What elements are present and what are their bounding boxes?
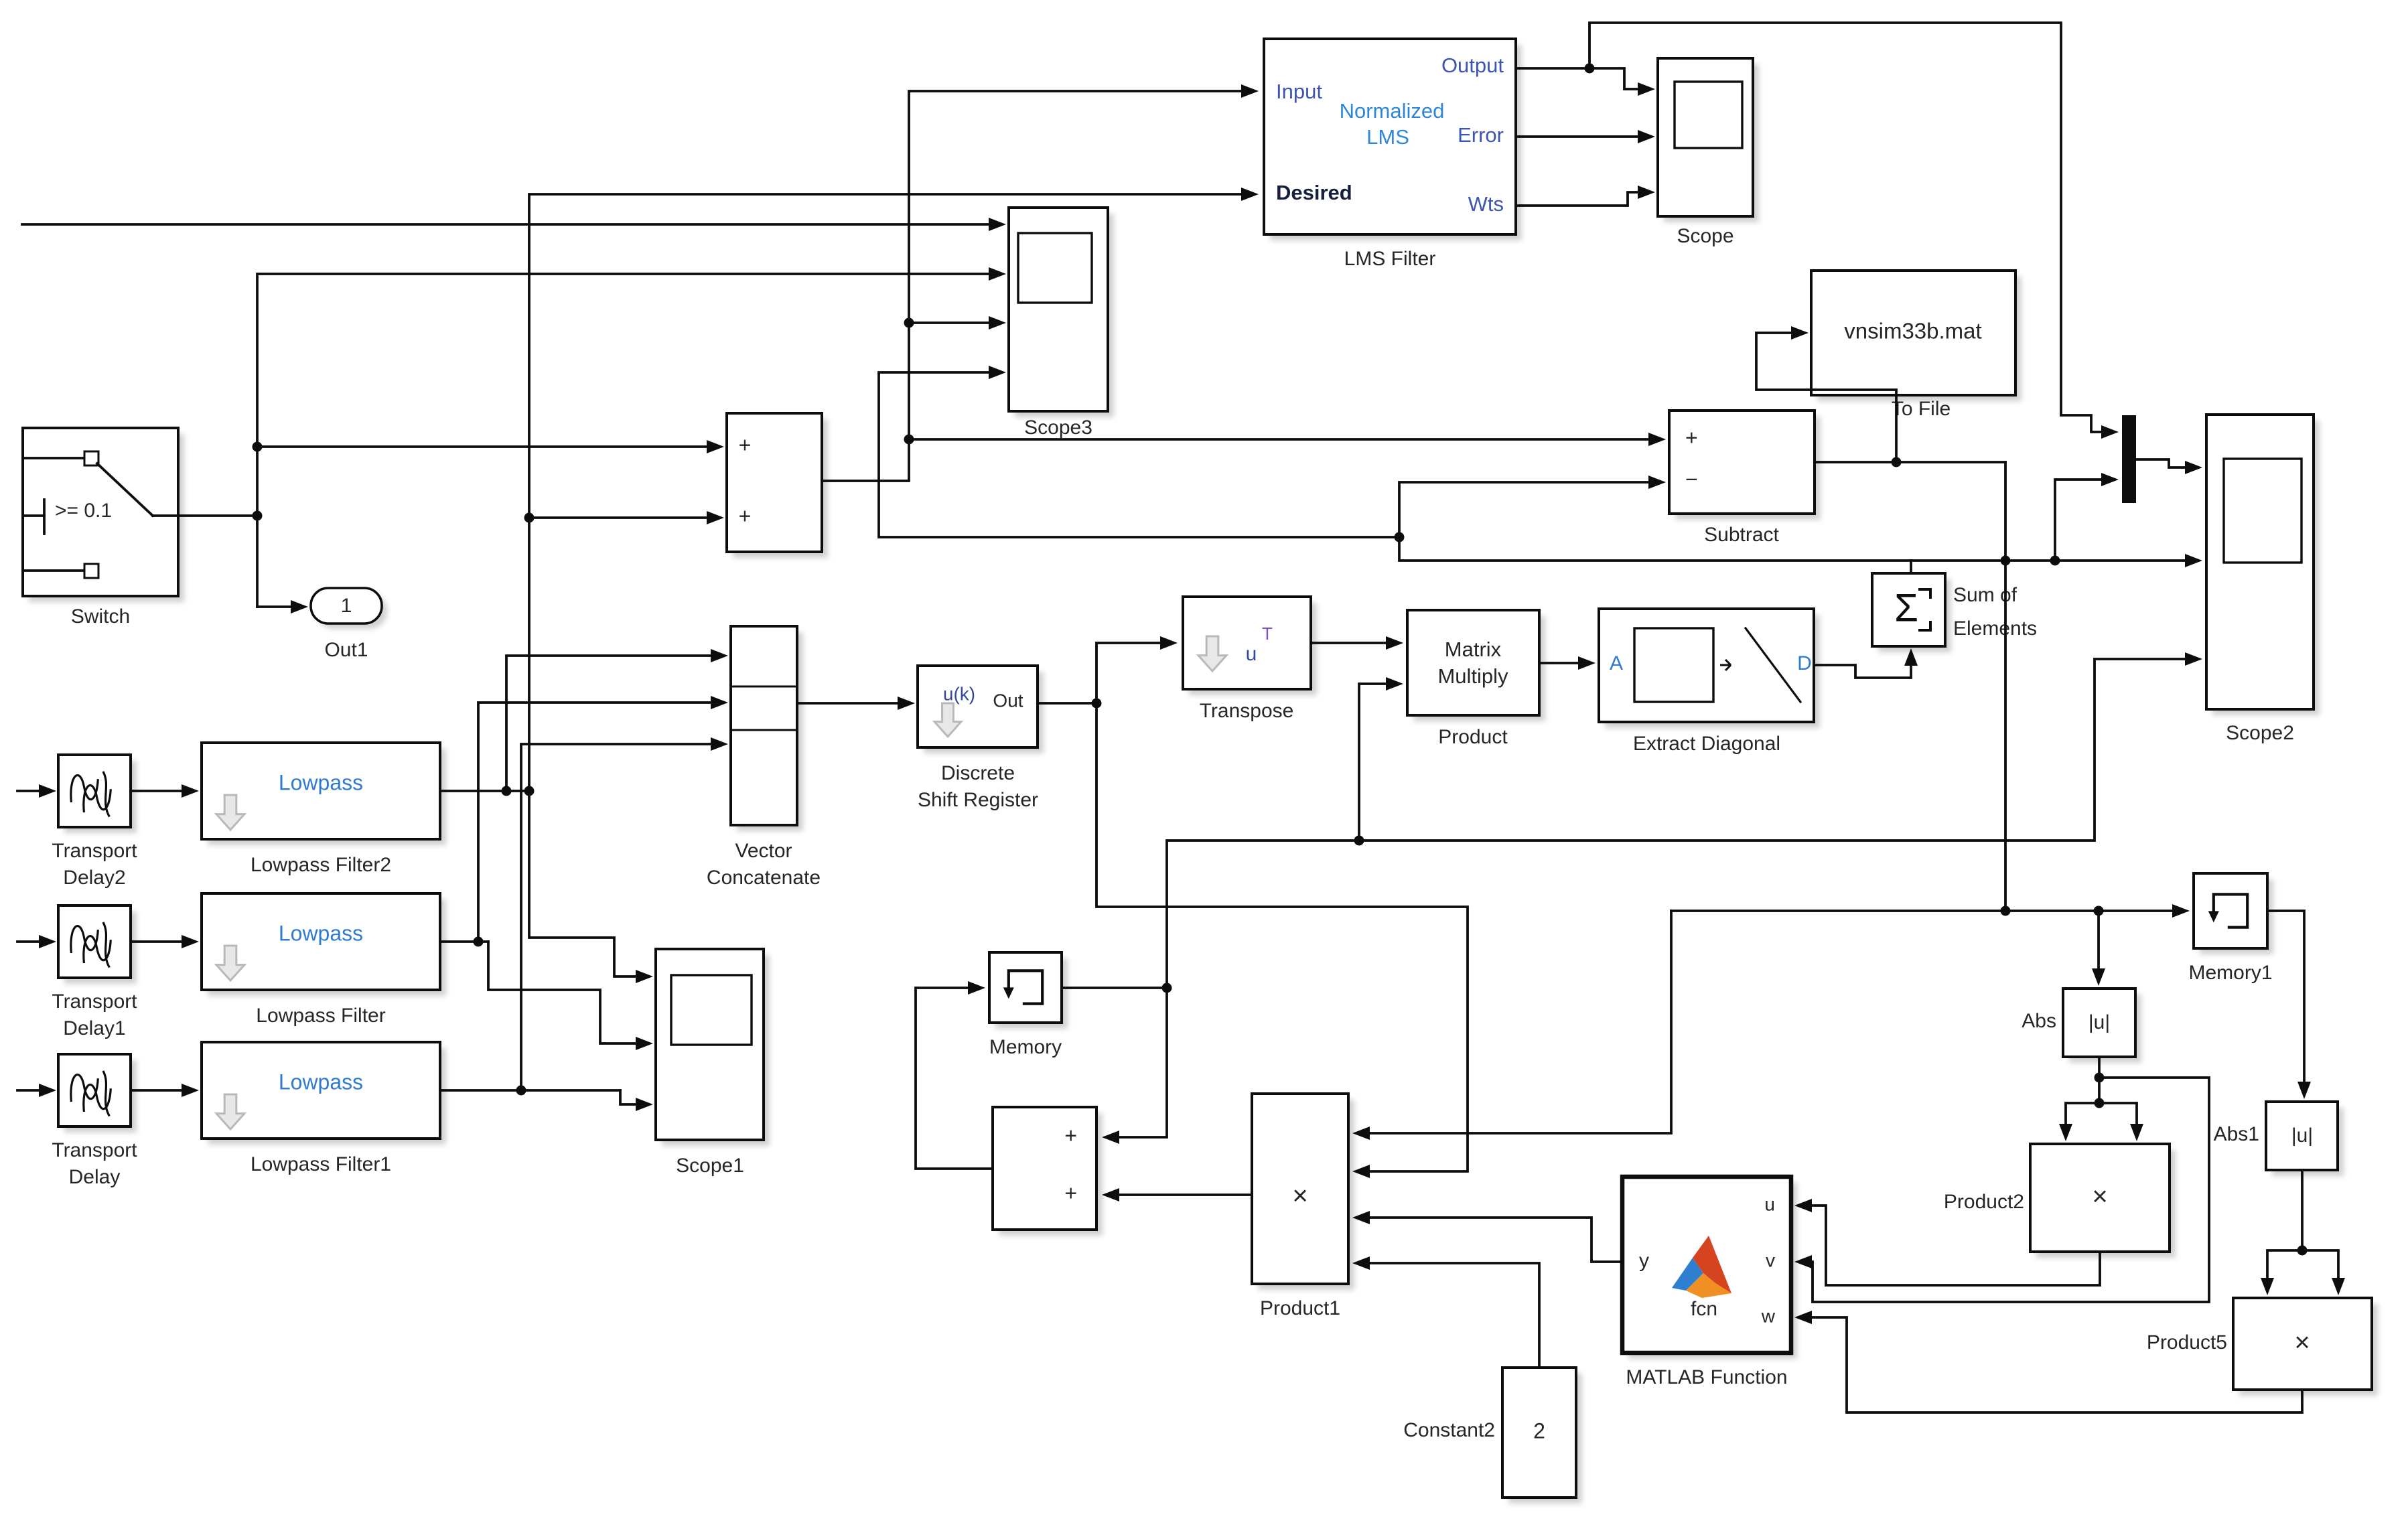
label Product1 [1260, 1297, 1340, 1319]
label Abs1 [2214, 1123, 2259, 1145]
block Discrete Shift Register [918, 666, 1044, 753]
svg-text:D: D [1797, 652, 1812, 674]
wire LMS Wts to Scope in3 [1516, 186, 1655, 206]
wire Abs to MATLAB v [1794, 1078, 2209, 1302]
label Out1 [324, 639, 368, 661]
wire u(k) to Transpose [1096, 636, 1178, 703]
svg-text:Normalized: Normalized [1340, 99, 1445, 123]
junction Abs1 out [2297, 1246, 2308, 1256]
svg-text:u: u [1764, 1193, 1775, 1214]
wire input stub [17, 935, 56, 948]
svg-text:Concatenate: Concatenate [707, 867, 821, 889]
wire Abs1 output [2301, 1170, 2304, 1250]
wire Lowpass output [440, 940, 488, 943]
junction Lowpass2 riser [524, 513, 535, 523]
svg-text:LMS: LMS [1366, 125, 1409, 149]
svg-text:Transpose: Transpose [1200, 700, 1294, 722]
block Scope [1658, 58, 1759, 222]
svg-text:Abs1: Abs1 [2214, 1123, 2259, 1145]
wire branch to Mux in2 [2055, 473, 2119, 561]
wire Lowpass2 riser to Desired [529, 188, 1259, 791]
wire Add to Subtract plus [909, 433, 1666, 446]
svg-text:Scope1: Scope1 [676, 1155, 744, 1177]
block LMS Filter [1264, 39, 1522, 240]
svg-text:Extract Diagonal: Extract Diagonal [1633, 733, 1780, 755]
label Subtract [1704, 524, 1779, 546]
label To File [1892, 398, 1951, 420]
svg-text:Output: Output [1441, 54, 1504, 77]
label Switch [71, 605, 130, 628]
wire Memory to Matrix Multiply in2 [1359, 677, 1403, 841]
svg-text:−: − [1685, 467, 1698, 491]
svg-text:y: y [1639, 1250, 1649, 1272]
block Scope2 [2206, 415, 2320, 715]
wire branch to Scope2 in2 [1911, 554, 2202, 567]
svg-text:×: × [2092, 1182, 2107, 1212]
svg-text:Lowpass: Lowpass [279, 921, 363, 945]
wire Subtract down [2004, 462, 2007, 911]
wire trunk to Abs [2092, 911, 2105, 986]
svg-text:v: v [1766, 1250, 1775, 1270]
label Memory [989, 1036, 1062, 1058]
junction Subtract out [1892, 457, 1902, 467]
label Lowpass Filter2 [251, 854, 391, 876]
svg-text:Scope3: Scope3 [1024, 417, 1092, 439]
wire Memory to Add2 in1 [1102, 988, 1167, 1144]
block Abs [2063, 989, 2141, 1063]
svg-text:Discrete: Discrete [941, 762, 1015, 784]
svg-text:+: + [1685, 425, 1698, 449]
wire Switch to Add in1 [257, 440, 724, 453]
wire Switch output trunk [178, 267, 1006, 607]
junction u(k) [1092, 699, 1102, 709]
mux Mux [2122, 415, 2136, 503]
label Extract Diagonal [1633, 733, 1780, 755]
svg-text:Lowpass Filter: Lowpass Filter [256, 1005, 385, 1027]
label Transpose [1200, 700, 1294, 722]
outport Out1 [311, 588, 387, 629]
wire LMS Output feedback [1589, 23, 2119, 439]
svg-text:Memory1: Memory1 [2188, 962, 2272, 984]
svg-text:2: 2 [1533, 1419, 1545, 1443]
block Subtract [1669, 411, 1821, 520]
block Memory [989, 952, 1068, 1029]
svg-text:Out: Out [993, 690, 1023, 711]
junction Lowpass2 out [502, 786, 535, 796]
wire Subtract output [1815, 461, 2005, 463]
wire Abs to Product2 inputs [2059, 1103, 2143, 1141]
svg-text:Delay: Delay [69, 1166, 121, 1188]
wire Transpose to Matrix Multiply in1 [1311, 636, 1403, 650]
svg-text:Delay1: Delay1 [63, 1017, 125, 1039]
svg-text:+: + [1064, 1181, 1077, 1205]
label Transport Delay1 [52, 991, 137, 1039]
wire Product5 to MATLAB w [1794, 1311, 2302, 1412]
svg-text:Subtract: Subtract [1704, 524, 1779, 546]
svg-text:|u|: |u| [2291, 1124, 2313, 1147]
svg-text:Scope2: Scope2 [2226, 722, 2294, 744]
svg-text:Product: Product [1438, 726, 1508, 748]
wire Memory1 to Abs1 [2267, 911, 2311, 1099]
svg-text:vnsim33b.mat: vnsim33b.mat [1844, 319, 1981, 344]
svg-text:Scope: Scope [1677, 225, 1733, 247]
wire Lowpass to Concatenate in2 [478, 696, 728, 942]
label LMS Filter [1344, 248, 1436, 270]
block Matrix Multiply [1407, 610, 1545, 721]
wire Extract Diagonal to Sum of Elements [1814, 648, 1918, 678]
svg-text:×: × [2294, 1328, 2310, 1358]
svg-text:Shift Register: Shift Register [918, 789, 1038, 811]
wire Abs1 to Product5 inputs [2261, 1250, 2345, 1295]
svg-text:Abs: Abs [2022, 1010, 2056, 1032]
wire Add to Scope3 in3 [909, 316, 1006, 330]
junction Lowpass1 out [516, 1086, 526, 1096]
wire Lowpass to Scope1 in2 [488, 942, 653, 1050]
wire input stub [17, 784, 56, 798]
block Product2 [2030, 1144, 2176, 1258]
junction Lowpass out [474, 937, 484, 947]
svg-text:+: + [1064, 1123, 1077, 1147]
svg-text:To File: To File [1892, 398, 1951, 420]
block To File [1811, 271, 2022, 401]
label Lowpass Filter [256, 1005, 385, 1027]
svg-text:fcn: fcn [1691, 1298, 1717, 1320]
block Product5 [2233, 1298, 2378, 1396]
wire u(k) to Product1 in2 [1096, 703, 1468, 1178]
svg-text:Error: Error [1458, 123, 1504, 147]
block Lowpass Filter2 [202, 743, 446, 845]
junction Memory1 trunk [2001, 906, 2104, 916]
svg-text:+: + [739, 504, 752, 528]
wire MATLAB y to Product1 in3 [1352, 1211, 1622, 1262]
svg-text:A: A [1610, 652, 1623, 674]
block Switch [23, 428, 184, 602]
block MATLAB Function [1622, 1177, 1797, 1359]
block Transport Delay2 [58, 755, 137, 833]
wire Lowpass2 output [440, 790, 529, 792]
wire LMS Error to Scope in2 [1516, 130, 1655, 143]
svg-text:Vector: Vector [735, 840, 792, 862]
block Sum of Elements [1872, 573, 1951, 652]
wire Lowpass2 to Scope1 in1 [529, 791, 653, 983]
svg-text:1: 1 [341, 595, 352, 617]
block Lowpass Filter1 [202, 1042, 446, 1145]
wire to Scope3 in1 [22, 218, 1006, 231]
svg-text:Product1: Product1 [1260, 1297, 1340, 1319]
block Product1 [1252, 1094, 1354, 1290]
svg-text:Wts: Wts [1468, 192, 1504, 216]
block Transport Delay [58, 1054, 137, 1133]
wire Shift Register output [1038, 702, 1096, 705]
label Transport Delay [52, 1139, 137, 1188]
svg-text:Transport: Transport [52, 1139, 137, 1161]
junction Subtract branch [2001, 556, 2060, 566]
svg-text:Matrix: Matrix [1445, 638, 1502, 661]
svg-text:LMS Filter: LMS Filter [1344, 248, 1436, 270]
svg-text:Transport: Transport [52, 991, 137, 1013]
label Vector Concatenate [707, 840, 821, 889]
wire Constant2 to Product1 in4 [1352, 1256, 1539, 1368]
wire Sum of Elements output [1399, 476, 1911, 573]
svg-text:Input: Input [1276, 80, 1322, 103]
label Memory1 [2188, 962, 2272, 984]
svg-text:Delay2: Delay2 [63, 867, 125, 889]
svg-text:Memory: Memory [989, 1036, 1062, 1058]
svg-text:Lowpass Filter1: Lowpass Filter1 [251, 1153, 391, 1175]
label Scope1 [676, 1155, 744, 1177]
label Discrete Shift Register [918, 762, 1038, 811]
label Product5 [2147, 1331, 2227, 1354]
wire Memory riser [1167, 652, 2202, 988]
svg-text:w: w [1761, 1305, 1776, 1326]
svg-text:MATLAB Function: MATLAB Function [1626, 1366, 1787, 1388]
svg-text:×: × [1292, 1181, 1307, 1211]
wire Add2 to Memory [916, 981, 993, 1169]
label Sum of Elements [1953, 584, 2037, 640]
block Add [727, 413, 828, 558]
block Transport Delay1 [58, 905, 137, 984]
wire Abs output [2098, 1057, 2101, 1103]
svg-text:Lowpass: Lowpass [279, 770, 363, 794]
wire Transport Delay to Lowpass [131, 1084, 199, 1097]
label Lowpass Filter1 [251, 1153, 391, 1175]
block Abs1 [2266, 1102, 2344, 1176]
junction Switch trunk [253, 442, 263, 521]
svg-text:Sum of: Sum of [1953, 584, 2017, 606]
svg-text:Constant2: Constant2 [1403, 1419, 1495, 1441]
block Lowpass Filter [202, 893, 446, 996]
wire Product1 to Add2 in2 [1102, 1188, 1252, 1202]
svg-text:Transport: Transport [52, 840, 137, 862]
wire Transport Delay to Lowpass [131, 784, 199, 798]
label Abs [2022, 1010, 2056, 1032]
label Scope2 [2226, 722, 2294, 744]
svg-text:Elements: Elements [1953, 617, 2037, 640]
junction Memory out [1162, 983, 1172, 993]
wire Lowpass1 output [440, 1089, 620, 1092]
svg-text:+: + [739, 433, 752, 457]
svg-text:u: u [1246, 643, 1257, 665]
wire Subtract to To File [1756, 326, 1896, 462]
wire Mux to Scope2 in1 [2136, 459, 2202, 474]
label Transport Delay2 [52, 840, 137, 889]
label MATLAB Function [1626, 1366, 1787, 1388]
junction Abs out [2095, 1073, 2105, 1108]
wire Switch to Out1 [257, 600, 308, 613]
label Constant2 [1403, 1419, 1495, 1441]
wire input stub [17, 1084, 56, 1097]
label Product [1438, 726, 1508, 748]
junction LMS Output [1585, 64, 1595, 74]
wire Matrix Multiply to Extract Diagonal [1539, 656, 1596, 670]
wire LMS Output [1516, 67, 1589, 70]
block Constant2 [1502, 1368, 1582, 1504]
label Product2 [1944, 1191, 2024, 1213]
label Scope [1677, 225, 1733, 247]
junction Add out [904, 318, 914, 445]
svg-text:Switch: Switch [71, 605, 130, 628]
junction Sum output [1395, 532, 1405, 542]
svg-text:Desired: Desired [1276, 181, 1352, 204]
junction Memory riser [1354, 836, 1364, 846]
wire Lowpass2 to Concatenate in1 [506, 649, 728, 791]
svg-text:Multiply: Multiply [1437, 664, 1508, 688]
wire Sum to Scope3 in4 [879, 366, 1399, 537]
wire trunk to Product1 in1 [1352, 911, 1671, 1140]
svg-text:u(k): u(k) [943, 683, 975, 704]
svg-text:Product5: Product5 [2147, 1331, 2227, 1354]
wire Memory1 trunk [1671, 904, 2190, 918]
svg-text:>= 0.1: >= 0.1 [55, 500, 112, 522]
block Scope1 [656, 949, 770, 1146]
block Add2 [993, 1107, 1103, 1236]
svg-text:Lowpass: Lowpass [279, 1070, 363, 1094]
wire Lowpass1 to Concatenate in3 [521, 737, 728, 1090]
svg-text:Σ: Σ [1894, 586, 1918, 630]
block Memory1 [2194, 873, 2273, 954]
svg-text:Lowpass Filter2: Lowpass Filter2 [251, 854, 391, 876]
svg-text:T: T [1262, 624, 1273, 644]
svg-text:|u|: |u| [2088, 1011, 2110, 1033]
wire Lowpass1 to Scope1 in3 [620, 1090, 653, 1111]
wire LMS Output to Scope in1 [1589, 68, 1655, 96]
block Scope3 [1009, 208, 1114, 417]
wire Product2 to MATLAB u [1794, 1199, 2100, 1285]
block Transpose [1183, 597, 1317, 695]
label Scope3 [1024, 417, 1092, 439]
wire Memory output [1062, 987, 1167, 989]
wire Lowpass2 to Add in2 [529, 511, 724, 524]
svg-text:Product2: Product2 [1944, 1191, 2024, 1213]
wire Concatenate to Shift Register [797, 697, 915, 710]
svg-text:Out1: Out1 [324, 639, 368, 661]
block Vector Concatenate [731, 626, 803, 831]
wire Add output [822, 84, 1259, 481]
block Extract Diagonal [1599, 609, 1820, 728]
wire Transport Delay to Lowpass [131, 935, 199, 948]
